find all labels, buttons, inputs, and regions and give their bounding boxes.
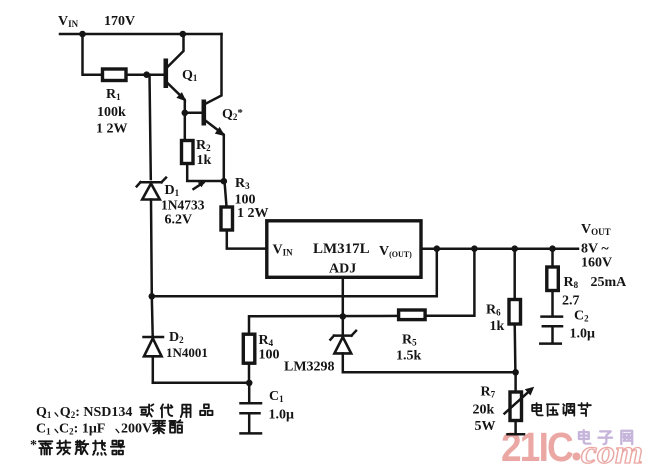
- resistor R8: [547, 267, 559, 291]
- svg-text:8V ~: 8V ~: [581, 242, 609, 257]
- svg-text:100k: 100k: [97, 105, 126, 120]
- svg-text:25mA: 25mA: [591, 275, 628, 290]
- wire R6 to R7 node: [513, 324, 516, 372]
- regulator U1 LM317L box: [267, 221, 421, 277]
- note line2 chinese ju zhi: [153, 420, 183, 433]
- wire rail down to R8: [551, 249, 554, 267]
- zener diode D1: [137, 75, 166, 297]
- resistor R2: [182, 141, 194, 164]
- watermark .com script: [573, 453, 581, 461]
- node ADJ junction: [340, 313, 347, 320]
- svg-text:1 2W: 1 2W: [237, 206, 269, 221]
- wire R3 to LM317 VIN pin: [227, 230, 266, 249]
- capacitor C1: [241, 383, 262, 434]
- note line1 chinese huo dai yong pin: [140, 404, 212, 417]
- svg-text:160V: 160V: [581, 256, 612, 271]
- potentiometer R7: [505, 372, 535, 434]
- resistor R3: [221, 207, 233, 230]
- node Q2 emitter / R3 top: [221, 178, 228, 185]
- wire top 170V rail: [60, 33, 222, 36]
- svg-text:1N4001: 1N4001: [166, 345, 208, 360]
- node Q1 emitter / Q2 base / R2 top: [182, 110, 189, 117]
- wire sense tap down and left to D1/D2 node: [152, 249, 437, 297]
- node R4 / C1 junction: [246, 380, 253, 387]
- wire rail corner down to Q2 collector: [206, 34, 222, 104]
- node output sense tap: [434, 245, 441, 252]
- svg-text:5W: 5W: [475, 419, 496, 434]
- wire node to R3: [225, 181, 227, 206]
- svg-text:1.5k: 1.5k: [396, 349, 422, 364]
- node D1 / D2 / output sense junction: [149, 293, 156, 300]
- wire R5 to ADJ node to R4: [249, 316, 399, 334]
- svg-text:170V: 170V: [104, 14, 135, 29]
- svg-text:LM317L: LM317L: [313, 241, 370, 257]
- svg-text:1k: 1k: [197, 153, 212, 168]
- svg-text:1k: 1k: [490, 319, 505, 334]
- svg-text:com: com: [581, 435, 643, 471]
- node R1 output / D1 top: [143, 71, 150, 78]
- wire R2 bottom to R3 node: [187, 164, 224, 182]
- svg-text:21IC: 21IC: [501, 424, 573, 470]
- resistor R4: [243, 334, 255, 383]
- wire ADJ pin down: [342, 277, 345, 333]
- svg-text:1N4733: 1N4733: [161, 198, 205, 213]
- svg-text:ADJ: ADJ: [329, 262, 356, 277]
- note line3 chinese xu zhuang san re qi: [39, 440, 124, 454]
- svg-text:100: 100: [259, 348, 280, 363]
- wire rail down to R5 line: [425, 249, 474, 316]
- label voltage adjust chinese: [532, 403, 591, 416]
- arrow mark on wire: [194, 183, 204, 190]
- node input rail junction: [79, 31, 86, 38]
- svg-text:20k: 20k: [473, 403, 495, 418]
- svg-text:1 2W: 1 2W: [96, 122, 128, 137]
- node R5 rail tap: [471, 245, 478, 252]
- wire bottom rail D2 to C1 node: [153, 382, 249, 385]
- node R6 rail tap: [511, 245, 518, 252]
- svg-text:1.0μ: 1.0μ: [269, 408, 295, 423]
- resistor R1: [103, 69, 127, 81]
- note line1 dun marks: [55, 413, 58, 416]
- node R8 rail tap: [549, 245, 556, 252]
- capacitor C2: [540, 291, 562, 344]
- svg-text:Q1 Q2: NSD134: Q1 Q2: NSD134: [36, 405, 132, 420]
- resistor R5: [399, 310, 426, 320]
- wire node down to R2: [184, 113, 187, 140]
- resistor R6: [509, 300, 521, 325]
- diode D2: [144, 296, 164, 383]
- wire rail to R1: [83, 34, 103, 75]
- watermark chinese dianziwang: [579, 430, 632, 444]
- svg-text:1.0μ: 1.0μ: [570, 327, 596, 342]
- wire R1 to Q1 base: [126, 73, 164, 76]
- svg-text:LM3298: LM3298: [284, 360, 335, 375]
- svg-text:2.7: 2.7: [562, 294, 580, 309]
- wire rail down to R6: [513, 249, 516, 299]
- wire output rail: [421, 247, 578, 250]
- svg-text:*: *: [30, 438, 37, 453]
- wire node to Q2 base: [185, 112, 202, 115]
- node R6 / R7 / zener return junction: [512, 369, 519, 376]
- svg-text:200V: 200V: [121, 422, 152, 437]
- zener diode LM3298: [330, 331, 515, 372]
- transistor Q2: [202, 100, 226, 182]
- transistor Q1: [164, 34, 187, 113]
- node Q1 collector at rail: [180, 31, 187, 38]
- svg-text:6.2V: 6.2V: [165, 213, 193, 228]
